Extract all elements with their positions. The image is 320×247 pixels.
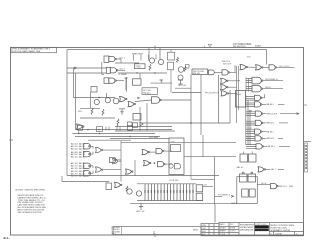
pullup bar symbol <box>125 78 128 90</box>
svg-text:BB 00 L: BB 00 L <box>267 104 275 106</box>
osc circle <box>169 164 173 168</box>
gate W3b <box>110 157 117 162</box>
small parts under Q4 <box>178 80 183 84</box>
or gate X1 <box>142 150 150 155</box>
svg-text:NOTES: UNLESS SPECIFIED: NOTES: UNLESS SPECIFIED <box>16 189 46 191</box>
or gate Z1 <box>115 182 123 187</box>
comb vertical lines <box>145 184 193 201</box>
comb bottom line <box>137 200 203 202</box>
nand gate W2 <box>84 151 91 156</box>
U10b output wire and label <box>263 88 283 90</box>
vertical wire x=160 <box>159 47 161 59</box>
title block left cell divider <box>219 223 239 236</box>
vertical wire x=266.5 <box>266 50 268 65</box>
register box <box>236 91 246 108</box>
wire from x=219 to label <box>215 195 223 197</box>
vertical wire x=106.6 <box>106 93 108 98</box>
vertical x=201 <box>200 75 202 136</box>
gate U5b lower <box>221 78 229 83</box>
wire y=73 <box>67 72 106 74</box>
vertical x=147 <box>146 103 148 131</box>
stage2 gate W3 <box>96 147 102 152</box>
output wire of U5 <box>230 71 236 73</box>
svg-text:CLK OUT L: CLK OUT L <box>279 66 291 68</box>
component box below center <box>133 79 142 85</box>
stage2 gate W6 <box>96 167 102 172</box>
gate U5d <box>221 91 229 96</box>
W5 out wire <box>90 171 93 174</box>
W3 output <box>103 149 121 151</box>
V1 input bundle <box>246 97 255 101</box>
vertical wire x=75.5 <box>75 73 77 130</box>
ff box row1 <box>240 154 248 162</box>
header text row <box>240 224 254 231</box>
wire y=83.1 <box>151 82 172 84</box>
arrow on wire y=68 <box>74 67 76 69</box>
svg-text:R PK 330: R PK 330 <box>170 180 179 182</box>
svg-text:PP QQ RR SS: PP QQ RR SS <box>205 93 220 95</box>
title block left cells text <box>220 223 236 236</box>
gate U1 output wire <box>116 58 121 60</box>
svg-text:1 OF 2: 1 OF 2 <box>230 231 236 233</box>
ff row1 top stubs <box>244 152 253 155</box>
junction dot <box>98 97 100 99</box>
svg-text:BB 02 L: BB 02 L <box>267 123 275 125</box>
wire y=181.5 <box>62 181 109 183</box>
svg-text:SEL L: SEL L <box>271 169 277 171</box>
svg-text:BB 04 L: BB 04 L <box>267 138 275 140</box>
gate U3 output wire <box>116 80 124 82</box>
Y1 arrow end <box>278 168 284 170</box>
wire y=184.5 right <box>257 184 270 186</box>
svg-text:4-12: 4-12 <box>230 224 234 226</box>
zone tick left border <box>9 139 13 141</box>
gate X3 <box>144 161 152 166</box>
transistor Q7 <box>127 189 132 194</box>
vertical x=203 <box>202 135 204 157</box>
bus y=123 <box>140 122 230 124</box>
wire y=133.5 <box>73 133 156 135</box>
nand gate W1 <box>84 144 91 149</box>
top-left note box <box>11 47 57 52</box>
vertical wire x=126.5 <box>126 77 128 92</box>
right border small tick <box>304 104 308 106</box>
V7 output label <box>264 145 267 147</box>
svg-text:MC 100: MC 100 <box>179 85 187 87</box>
svg-text:REG: REG <box>237 94 242 96</box>
nand gate U7 <box>269 65 277 70</box>
input rails for U9/U10 <box>246 78 248 92</box>
vertical wire x=140a <box>139 73 141 79</box>
nand gate V7 <box>256 144 264 149</box>
V5 output label <box>262 131 266 133</box>
svg-text:CLK GEN: CLK GEN <box>149 137 159 139</box>
right margin vertical doc number strip <box>304 141 311 143</box>
svg-text:B-1..: B-1.. <box>4 236 11 240</box>
svg-text:MAYNARD MA: MAYNARD MA <box>240 229 254 232</box>
V7 long output wire <box>279 145 290 147</box>
vertical x=135 <box>134 160 136 176</box>
junction <box>190 122 192 124</box>
svg-text:REF SCHEM 001-001938: REF SCHEM 001-001938 <box>18 212 43 214</box>
svg-text:BB 05 L: BB 05 L <box>268 146 276 148</box>
V3 output wire <box>280 113 299 115</box>
svg-text:NN MM DDD: NN MM DDD <box>233 46 246 48</box>
V4 output wire <box>279 122 288 124</box>
wire y=108.3 <box>80 107 100 109</box>
wire y=126.5 <box>115 126 172 128</box>
signoff text <box>202 225 207 236</box>
ff box row2b <box>248 174 256 182</box>
transistor Q3 <box>178 67 184 73</box>
signoff grid box <box>201 224 219 236</box>
nand gate Y2 <box>271 184 279 189</box>
junction dot <box>154 162 156 164</box>
vertical wire x=172 <box>170 50 172 53</box>
zone label above top border left of center <box>208 44 212 47</box>
vertical wire x=235 upper <box>234 65 236 72</box>
zone tick bottom border <box>154 234 156 238</box>
wire y=156.6 <box>184 156 236 158</box>
svg-text:RUN ENBL H: RUN ENBL H <box>265 79 278 81</box>
ruler dots bottom right <box>269 234 303 236</box>
osc inner box <box>171 145 181 152</box>
nand gate V2 <box>255 102 263 107</box>
wire ffbox bottom left <box>215 202 237 204</box>
signoff grid lines <box>201 224 219 236</box>
drawing border frame <box>11 48 304 236</box>
wire between gates <box>215 71 223 73</box>
resistor R3 <box>184 66 186 72</box>
svg-text:CLK 1: CLK 1 <box>119 57 126 59</box>
output wire with label <box>277 66 295 68</box>
vertical at x=62 <box>61 176 63 182</box>
wire U8 to U6 <box>248 66 256 68</box>
nand gate X4 <box>158 162 166 167</box>
svg-text:NEXT: NEXT <box>193 230 199 232</box>
nand gate V3 <box>255 111 263 116</box>
gate U1 input box <box>104 56 109 62</box>
svg-text:TO SHEET 2: TO SHEET 2 <box>218 195 231 197</box>
U5d output wire <box>229 92 237 94</box>
vertical x=230 <box>229 90 231 123</box>
vertical wire x=90.4 <box>89 92 91 108</box>
X2 output <box>164 150 172 152</box>
Y1 output wire label <box>266 168 271 170</box>
svg-text:SS 02 H: SS 02 H <box>223 64 232 66</box>
Y2 end wire <box>289 185 293 187</box>
nand gate V1 <box>255 95 263 100</box>
transistor Q6b <box>113 98 119 104</box>
wires to U13 <box>135 100 152 102</box>
nand gate U10b input bundle <box>246 87 252 91</box>
svg-text:LL MMM: LL MMM <box>119 74 127 76</box>
IC box with label <box>192 69 208 75</box>
title text <box>270 225 294 232</box>
vertical x=121 <box>120 141 122 182</box>
svg-text:+5V: +5V <box>203 185 207 187</box>
title block outer <box>219 223 304 236</box>
small box P3 <box>186 65 190 69</box>
vertical x=218.5 <box>218 75 220 123</box>
ff box row3b <box>249 189 255 197</box>
svg-text:WR CLK H: WR CLK H <box>267 113 278 115</box>
label box center <box>142 88 158 95</box>
nand gate U10b <box>252 86 261 92</box>
svg-text:CC 03: CC 03 <box>247 128 252 130</box>
wire X1 to X2 <box>150 151 157 153</box>
logo dark row2 <box>255 229 269 231</box>
number row divider <box>269 230 303 232</box>
logo divider <box>254 223 256 236</box>
ff box row3a <box>242 189 249 197</box>
small marks between boxes <box>106 127 120 131</box>
U13 output wire <box>161 99 191 101</box>
transistor Q5 <box>94 99 99 104</box>
V3 input bundle <box>246 112 256 116</box>
component box right end <box>106 183 112 190</box>
wire y=175.5 <box>67 175 219 177</box>
vertical x=191 <box>190 75 192 124</box>
V5 input bundle <box>246 130 255 134</box>
wire y=179.3 <box>191 178 215 180</box>
box B2 <box>133 123 138 128</box>
svg-text:CLK 2: CLK 2 <box>119 69 126 71</box>
number row cell dividers <box>274 231 295 235</box>
pullup bar symbol2 <box>160 80 164 83</box>
resistor R5 <box>102 109 104 116</box>
wire y=142.4 <box>121 141 236 143</box>
tick center bottom of long box <box>153 231 155 235</box>
wire y=68 <box>67 67 106 69</box>
wire y=88.2 <box>175 87 191 89</box>
W1 out wire <box>90 146 93 149</box>
resistor R7 <box>126 186 128 192</box>
wire y=97.5 <box>74 97 116 99</box>
V6 output label <box>263 137 267 139</box>
ff row2 top circles <box>242 172 244 174</box>
component box P1 <box>168 52 175 60</box>
nor gate Y1 <box>258 167 266 172</box>
svg-text:MS 301: MS 301 <box>193 73 201 75</box>
or gate U11 <box>120 97 128 102</box>
gate U1 <box>109 56 117 61</box>
svg-text:SCALE: SCALE <box>220 226 227 229</box>
nand gate X2 <box>156 149 164 154</box>
V4 output label <box>263 122 267 124</box>
V6 output wire <box>278 137 283 139</box>
wire y=63 <box>120 59 122 63</box>
label row wire stubs <box>134 55 157 61</box>
wire y=73 center <box>118 72 167 74</box>
cap C1 <box>119 109 125 115</box>
resistor R6 <box>117 119 119 127</box>
wire y=136.5 <box>75 136 160 138</box>
nand gate V4 <box>255 120 263 125</box>
osc box <box>169 138 184 175</box>
U5c output wire <box>228 86 237 88</box>
svg-text:DEPARTMENT: DEPARTMENT <box>240 226 254 229</box>
svg-text:DRN: DRN <box>202 225 207 227</box>
IC box A2 <box>135 64 146 69</box>
bus taps row: component box T1 <box>78 125 83 130</box>
ground symbol <box>139 203 143 209</box>
V6 input bundle <box>246 137 255 141</box>
nand gate V6 <box>255 136 263 141</box>
nand gate U9 input bundle <box>246 79 252 83</box>
transistor Q1 <box>149 58 154 63</box>
svg-text:ENGINEERING: ENGINEERING <box>240 224 254 226</box>
svg-text:BB 03 L: BB 03 L <box>267 131 275 133</box>
vertical x=191 lower <box>190 123 192 179</box>
svg-text:CODE: CODE <box>220 234 226 236</box>
gate U10 <box>77 124 85 129</box>
inner frame top line <box>67 49 266 51</box>
transistor Q2 <box>158 59 163 64</box>
gate X5 lower <box>126 169 134 174</box>
svg-text:GND A: GND A <box>231 202 238 205</box>
V2 output label <box>262 103 266 105</box>
number row text <box>270 233 298 235</box>
and gate U4 <box>209 70 215 75</box>
long box left divider <box>121 227 123 235</box>
svg-text:AAAA: AAAA <box>255 45 261 48</box>
svg-text:FOR TEST AND MAINT USE: FOR TEST AND MAINT USE <box>12 50 41 53</box>
vertical wire x=101.8 <box>101 62 103 74</box>
bus rail x=238.3 <box>237 66 239 110</box>
gate U3 input box <box>104 78 109 84</box>
nand gate U13 <box>152 97 160 103</box>
transistor Q6 <box>105 98 110 103</box>
wire y=186 to label <box>203 186 213 188</box>
W2 out wire <box>90 152 93 155</box>
Y2 output label <box>278 185 282 187</box>
resistor R4 <box>91 108 93 115</box>
V2 input bundle <box>246 103 255 107</box>
title divider <box>268 223 270 236</box>
long narrow box <box>113 227 201 235</box>
lower wire y=203.3 <box>130 202 215 204</box>
gate column input rails <box>246 95 250 145</box>
vertical wire x=73.5 <box>73 68 75 98</box>
wire y=141 <box>88 139 131 141</box>
vertical x=215 to title strip <box>214 204 216 222</box>
component box T2 <box>97 127 103 132</box>
wire below P2 <box>170 70 172 93</box>
W3b output <box>116 159 121 161</box>
U5b output wire <box>228 80 240 82</box>
V3 output label <box>263 113 267 115</box>
vertical x=140 lower <box>139 107 141 131</box>
gate U3 <box>109 78 117 83</box>
svg-text:TT 0 L: TT 0 L <box>145 94 152 96</box>
wire y=129.6 <box>76 129 173 131</box>
gate U2 output wire <box>118 69 125 71</box>
small text block left of strip <box>112 227 121 236</box>
svg-text:GO L: GO L <box>283 186 289 188</box>
resistor R1 <box>149 64 151 71</box>
vertical wire x=149 <box>148 47 150 58</box>
W6 output <box>103 169 121 171</box>
nor gate U6 <box>256 65 264 70</box>
svg-text:NONE: NONE <box>230 227 236 229</box>
svg-text:ENG: ENG <box>202 231 207 233</box>
zone tick top border <box>154 46 156 50</box>
component box P2 <box>168 62 174 70</box>
resistor pack box1 <box>196 185 203 192</box>
svg-text:SEL 0 L: SEL 0 L <box>237 167 245 169</box>
cap C2 <box>128 122 133 127</box>
V1 output <box>262 94 265 98</box>
gate U2 input box <box>106 67 110 73</box>
osc inner gate <box>175 164 181 169</box>
svg-text:RUN L: RUN L <box>265 87 272 89</box>
svg-text:7400: 7400 <box>135 65 141 68</box>
component box T3 <box>128 125 133 130</box>
junction dots on taps <box>78 133 79 134</box>
resistor R2 <box>177 57 179 63</box>
long vertical wire at x=67 <box>66 50 68 176</box>
svg-text:DATE: DATE <box>220 223 226 226</box>
diode D1 <box>140 122 143 126</box>
gate U5c <box>221 85 229 90</box>
V4 input bundle <box>246 121 256 125</box>
junction dots on y=73 <box>136 72 137 73</box>
X4 output <box>165 163 172 165</box>
nand gate U9 <box>252 77 261 84</box>
gate U2 <box>110 68 118 73</box>
ff box row1b <box>249 154 257 162</box>
gate X0 <box>113 159 118 164</box>
wire y=92.5 <box>172 92 201 94</box>
wire y=118 <box>80 117 115 119</box>
gate U12 <box>128 102 136 107</box>
bus rail x=236.5 <box>236 66 238 123</box>
component box K1 <box>91 87 97 93</box>
nand gate W4 <box>84 163 91 168</box>
wire y=131 <box>115 130 175 132</box>
arrow glyph <box>231 195 234 197</box>
wire y=63 horizontal <box>115 62 139 64</box>
resistor pack box2 <box>196 193 203 200</box>
comb top line <box>137 183 196 185</box>
nand gate W5 <box>84 171 91 176</box>
wire y=138.5 <box>110 138 169 140</box>
transistor Q8 <box>136 191 141 196</box>
U9 output wire and label <box>263 80 283 82</box>
svg-text:GO H: GO H <box>261 183 267 185</box>
wire U6 to U7 <box>263 66 269 68</box>
W4 out wire <box>90 166 93 169</box>
vertical doc number glyph marks <box>305 145 306 169</box>
wire y=74.3 into gate3 <box>102 73 104 75</box>
nand gate V5 <box>255 129 263 134</box>
vertical x=219 mid <box>214 157 216 205</box>
ff box row2a <box>240 174 248 182</box>
X0 output wire <box>119 160 121 162</box>
V2 output wire <box>278 103 284 105</box>
arrows <box>137 97 139 99</box>
svg-text:GND -5V: GND -5V <box>136 211 145 213</box>
transistor Q4 <box>178 75 183 80</box>
svg-text:SHEET: SHEET <box>220 231 227 233</box>
gate U8 <box>240 65 248 70</box>
junction dots on y=129.6 <box>87 129 88 130</box>
ff cluster box outline <box>237 177 257 204</box>
vertical from taps <box>78 130 80 133</box>
nand gate U5 <box>222 70 230 75</box>
comb component blobs <box>144 190 193 193</box>
